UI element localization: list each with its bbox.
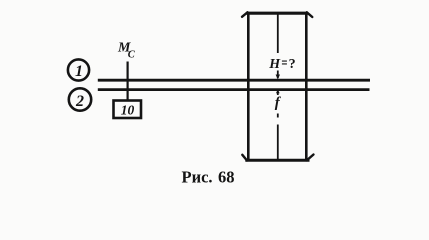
svg-text:2: 2 <box>75 93 84 110</box>
wire: upper horizontal line 1 <box>98 79 370 82</box>
slab right side <box>305 12 308 162</box>
slab left side <box>247 12 250 162</box>
svg-text:=: = <box>282 58 288 69</box>
tick bottom-right corner <box>307 155 314 161</box>
tick bottom-left corner <box>242 155 247 161</box>
svg-text:1: 1 <box>75 63 83 80</box>
svg-text:Рис.: Рис. <box>182 167 213 186</box>
wire: lower horizontal line 2 <box>98 88 370 91</box>
svg-text:10: 10 <box>121 103 135 118</box>
node label circle 1 <box>68 59 89 80</box>
svg-text:C: C <box>128 50 136 61</box>
slab center line upper segment <box>277 14 279 53</box>
tick top-right corner <box>307 12 313 17</box>
slab top bar <box>246 12 308 15</box>
arrow pointing down to line 1 <box>276 71 280 80</box>
node label circle 2 <box>69 88 91 110</box>
wire: vertical tick from M_C through lines to box <box>126 62 128 101</box>
box with value 10 <box>114 101 142 119</box>
slab bottom bar <box>245 159 309 162</box>
label H = ? <box>268 57 295 72</box>
svg-text:?: ? <box>289 57 296 72</box>
center line dash below f <box>277 114 279 118</box>
tick below line 2 with small up arrowhead <box>276 90 280 95</box>
svg-text:H: H <box>268 57 281 72</box>
label M_C <box>117 40 136 60</box>
slab center line lower segment <box>277 125 279 161</box>
svg-text:68: 68 <box>218 167 235 186</box>
tick top-left corner <box>242 12 248 16</box>
